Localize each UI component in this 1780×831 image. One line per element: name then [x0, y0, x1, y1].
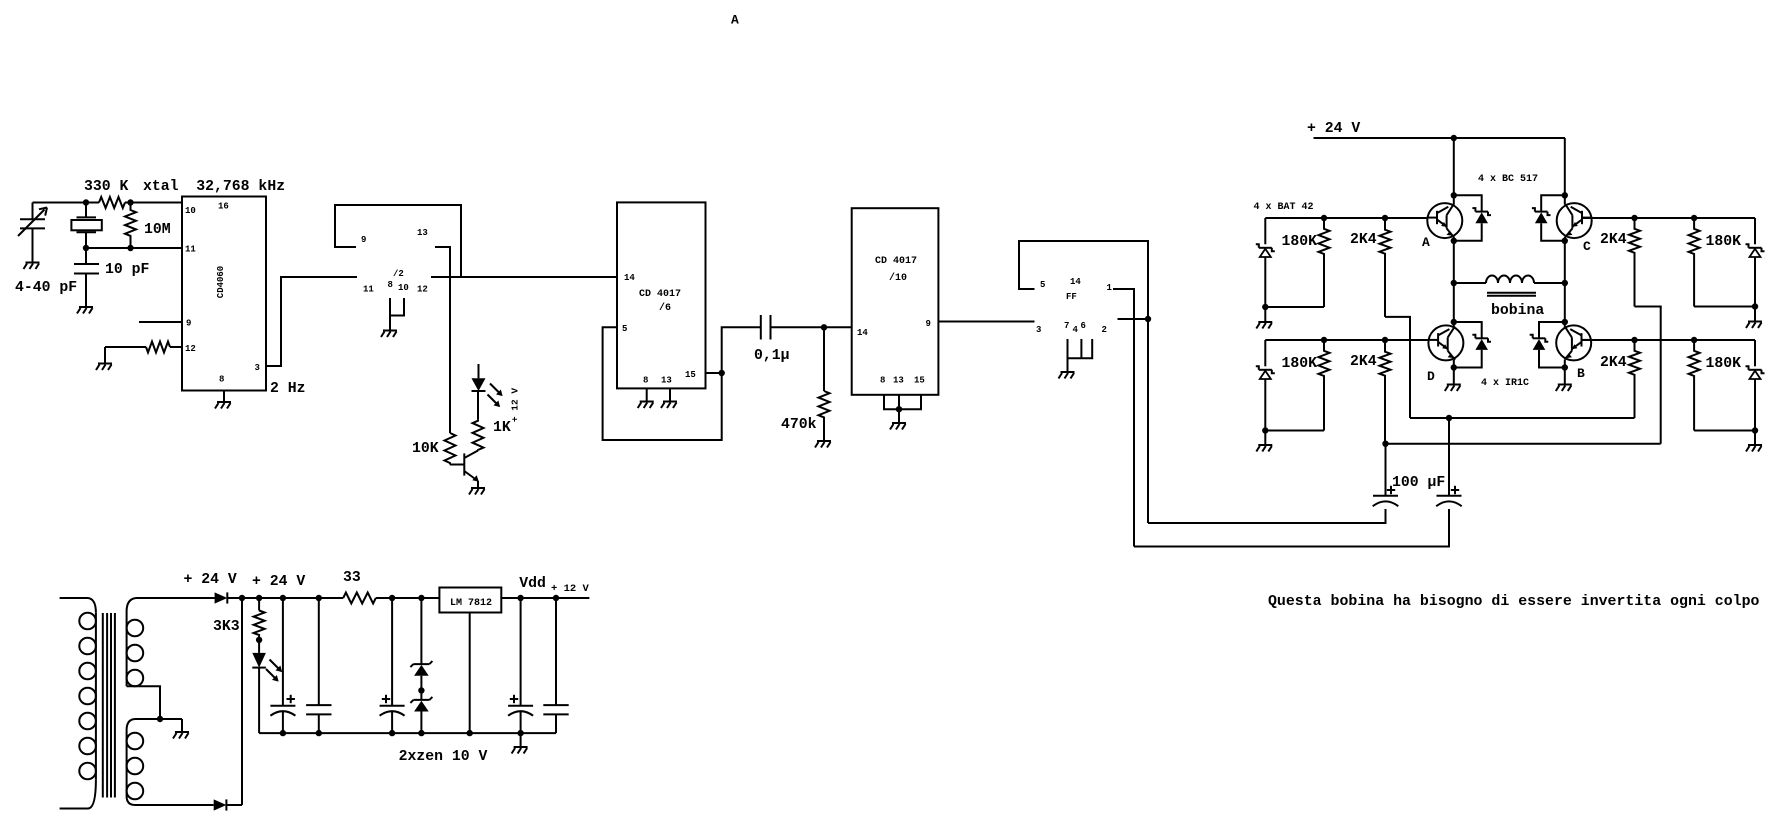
plus (C8)	[510, 695, 518, 703]
node 3K3 rail	[256, 595, 262, 601]
resistor 2K4 (D)	[1350, 340, 1391, 444]
LED D3 light arrows	[490, 384, 503, 397]
svg-text:470k: 470k	[781, 417, 817, 433]
svg-text:1: 1	[1107, 283, 1113, 293]
svg-text:180K: 180K	[1282, 234, 1318, 250]
wire FF pin2 stub	[1118, 318, 1149, 320]
svg-text:10K: 10K	[412, 441, 439, 457]
node gnd rail regulator	[467, 730, 473, 736]
node pin15 junction	[719, 370, 725, 376]
svg-text:+ 24 V: + 24 V	[252, 574, 305, 590]
wire D collector drop	[1453, 283, 1455, 327]
transistor D (darlington)	[1428, 325, 1463, 360]
svg-text:2xzen 10 V: 2xzen 10 V	[399, 749, 488, 765]
svg-text:33: 33	[343, 570, 361, 586]
svg-text:180K: 180K	[1282, 356, 1318, 372]
wire pin 3 to divider	[266, 277, 357, 366]
svg-text:10: 10	[185, 206, 196, 216]
capacitor 100uF C2	[1436, 418, 1462, 506]
node between zeners	[418, 687, 424, 693]
capacitor C6	[306, 598, 331, 733]
svg-text:14: 14	[1070, 277, 1081, 287]
ground (Q1 emitter)	[469, 488, 485, 495]
capacitor 10 pF	[74, 248, 149, 306]
node +24 rectifier junction	[239, 595, 245, 601]
op IC U1 CD4060	[182, 197, 266, 391]
plus (C2)	[1451, 486, 1459, 494]
diode BAT42 (A)	[1256, 218, 1275, 307]
node C2 top junction	[1446, 415, 1452, 421]
svg-text:A: A	[1422, 235, 1430, 250]
svg-text:2: 2	[1102, 325, 1107, 335]
wire pin 9 stub (CD4060)	[139, 321, 182, 323]
resistor 2K4 (A)	[1350, 218, 1391, 317]
wire +24V rail	[1314, 137, 1566, 139]
svg-text:11: 11	[363, 285, 374, 295]
wire to ground (B cell)	[1754, 431, 1756, 445]
svg-text:/10: /10	[889, 272, 907, 284]
svg-text:9: 9	[926, 319, 931, 329]
transformer T1	[60, 598, 214, 809]
svg-text:100 µF: 100 µF	[1392, 475, 1445, 491]
svg-text:180K: 180K	[1706, 356, 1742, 372]
wire C emitter to coil	[1564, 237, 1566, 283]
node crystal top	[83, 199, 89, 205]
resistor 180K (A)	[1265, 218, 1329, 307]
node D collector	[1451, 319, 1457, 325]
svg-text:2K4: 2K4	[1600, 232, 1627, 248]
diode rectifier D2	[214, 799, 242, 810]
svg-text:11: 11	[185, 245, 196, 255]
resistor 180K (B)	[1689, 340, 1755, 431]
ground (FF)	[1059, 372, 1075, 379]
ground (U2 pin8)	[638, 402, 654, 409]
svg-text:9: 9	[361, 235, 366, 245]
wire secondary top to diode	[136, 597, 215, 599]
wire regulator out rail	[501, 597, 589, 599]
node A base 2K4	[1382, 215, 1388, 221]
node gnd rail C8	[517, 730, 523, 736]
resistor 2K4 (B)	[1600, 340, 1640, 418]
plus (C7)	[382, 695, 390, 703]
svg-text:1K: 1K	[493, 420, 511, 436]
ground (470k)	[815, 441, 831, 448]
ground (A cell)	[1256, 322, 1272, 329]
node B emitter	[1562, 364, 1568, 370]
transistor B (darlington)	[1556, 325, 1591, 360]
svg-text:C: C	[1583, 239, 1591, 254]
svg-text:12: 12	[417, 285, 428, 295]
svg-text:bobina: bobina	[1491, 303, 1544, 319]
node C base 2K4	[1631, 215, 1637, 221]
svg-text:12: 12	[185, 344, 196, 354]
wire C-D drive rail	[1386, 443, 1661, 445]
diode flyback (C)	[1532, 195, 1565, 241]
svg-text:10M: 10M	[144, 222, 171, 238]
svg-text:3K3: 3K3	[213, 619, 240, 635]
node +24 rail / A collector	[1451, 135, 1457, 141]
capacitor C9	[543, 598, 568, 733]
wire A collector drop	[1453, 138, 1455, 205]
wire B emitter to ground	[1564, 360, 1566, 384]
svg-text:15: 15	[685, 370, 696, 380]
node cap/crystal junction	[83, 245, 89, 251]
wire U3 pins 8,13,15 to ground	[884, 395, 921, 423]
svg-text:3: 3	[255, 363, 260, 373]
wire pin 11 line	[86, 247, 182, 249]
node 3K3/LED	[256, 637, 262, 643]
zener Z1 10V	[410, 598, 432, 691]
svg-text:2K4: 2K4	[1600, 355, 1627, 371]
resistor 2K4 (C)	[1600, 218, 1640, 307]
LED D3	[472, 364, 486, 391]
wire /2 pin12 to CD4017 pin14	[431, 276, 617, 278]
resistor 180K (D)	[1265, 340, 1329, 431]
node U3 gnd junction	[896, 406, 902, 412]
svg-text:180K: 180K	[1706, 234, 1742, 250]
svg-text:/6: /6	[659, 302, 671, 314]
resistor 1K	[473, 420, 511, 451]
node B collector	[1562, 319, 1568, 325]
resistor 3K3	[254, 598, 265, 640]
svg-text:8: 8	[880, 376, 885, 386]
node FF pin2 junction	[1145, 316, 1151, 322]
node D emitter	[1451, 364, 1457, 370]
diode BAT42 (D)	[1256, 340, 1275, 431]
transistor Q1 (LED driver NPN)	[464, 451, 479, 488]
diode BAT42 (B)	[1746, 340, 1765, 431]
wire 10K to base	[450, 464, 464, 466]
node D base 2K4	[1382, 337, 1388, 343]
wire gnd stub	[520, 733, 522, 746]
wire 1K to LED	[477, 391, 479, 420]
svg-text:4 x IR1C: 4 x IR1C	[1481, 378, 1529, 389]
svg-text:5: 5	[622, 324, 627, 334]
wire cap to U3 pin14	[771, 326, 852, 328]
node B base 180K	[1691, 337, 1697, 343]
svg-text:16: 16	[218, 202, 229, 212]
svg-text:8: 8	[643, 376, 648, 386]
svg-text:3: 3	[1036, 325, 1041, 335]
svg-text:A: A	[731, 13, 739, 28]
capacitor 0,1u	[754, 315, 790, 364]
LED D4 light arrows	[270, 660, 283, 673]
node 470k top	[821, 324, 827, 330]
capacitor C5 electrolytic	[270, 598, 295, 733]
wire A-B drive rail	[1410, 417, 1635, 419]
svg-text:8: 8	[219, 375, 224, 385]
svg-text:+ 12 V: + 12 V	[510, 388, 521, 423]
svg-text:13: 13	[661, 376, 672, 386]
wire U2 pin8 stub	[646, 388, 648, 401]
plus (C1)	[1387, 486, 1395, 494]
node A collector	[1451, 192, 1457, 198]
svg-text:+ 24 V: + 24 V	[184, 572, 237, 588]
ground (pin 8)	[215, 402, 231, 409]
wire C drive jog down to D rail	[1635, 307, 1661, 444]
capacitor 100uF C1	[1373, 444, 1446, 507]
wire D emitter to ground	[1453, 360, 1455, 384]
svg-text:13: 13	[417, 228, 428, 238]
wire osc top rail	[33, 202, 100, 204]
svg-text:D: D	[1427, 369, 1435, 384]
wire FF pin5 top loop	[1019, 241, 1148, 523]
inductor bobina	[1454, 276, 1565, 320]
svg-text:330 K: 330 K	[84, 179, 129, 195]
wire pin15 up to coupling cap	[722, 327, 761, 373]
resistor 470k	[781, 327, 830, 440]
wire /2 pins 8,10 to ground	[390, 298, 404, 316]
svg-text:4: 4	[1073, 325, 1079, 335]
wire C collector drop	[1564, 138, 1566, 205]
ground (D emitter)	[1445, 385, 1461, 392]
ground (center tap)	[173, 732, 189, 739]
wire C base line	[1583, 217, 1756, 219]
svg-text:xtal 32,768 kHz: xtal 32,768 kHz	[143, 179, 285, 195]
ground (10 pF)	[77, 307, 93, 314]
IC U2 CD 4017 /6	[617, 202, 706, 388]
node 10M top	[127, 199, 133, 205]
wire A emitter to coil	[1453, 237, 1455, 283]
node rail zener	[418, 595, 424, 601]
node transformer center tap	[157, 716, 163, 722]
wire pin1 drop to cap2 bottom	[1134, 509, 1449, 547]
capacitor C7 electrolytic	[380, 598, 405, 733]
svg-text:FF: FF	[1066, 292, 1077, 302]
resistor 10M	[125, 203, 171, 249]
diode BAT42 (C)	[1746, 218, 1765, 307]
wire D base line	[1265, 339, 1428, 341]
wire /2 top loop pin9 to pin12	[335, 205, 461, 277]
wire U2 pin13 stub	[669, 388, 671, 401]
svg-text:10: 10	[398, 283, 409, 293]
ground (C cell)	[1746, 322, 1762, 329]
resistor 10K	[412, 433, 456, 465]
diode flyback (A)	[1454, 195, 1491, 241]
svg-text:4-40 pF: 4-40 pF	[15, 280, 77, 296]
svg-text:0,1µ: 0,1µ	[754, 348, 790, 364]
ground (D cell)	[1256, 445, 1272, 452]
ground (trimmer)	[24, 263, 40, 270]
node Vdd cap	[517, 595, 523, 601]
trimmer capacitor 4-40 pF	[15, 203, 77, 297]
svg-text:4 x BC 517: 4 x BC 517	[1478, 174, 1538, 185]
wire pin 8 to ground	[223, 391, 225, 402]
svg-text:6: 6	[1081, 321, 1086, 331]
node coil right	[1562, 280, 1568, 286]
svg-text:+ 12 V: + 12 V	[551, 583, 590, 595]
svg-text:Questa bobina ha bisogno di es: Questa bobina ha bisogno di essere inver…	[1268, 594, 1760, 610]
wire PSU ground rail	[259, 732, 556, 734]
node C emitter	[1562, 238, 1568, 244]
node C7 rail	[389, 595, 395, 601]
node gnd rail C5	[280, 730, 286, 736]
node gnd rail zener	[418, 730, 424, 736]
wire B base line	[1582, 339, 1755, 341]
crystal xtal 32,768 kHz	[71, 179, 285, 248]
svg-text:14: 14	[857, 328, 868, 338]
node C9 rail	[553, 595, 559, 601]
ground (/2 pins 8,10)	[381, 331, 397, 338]
svg-text:2K4: 2K4	[1350, 232, 1377, 248]
wire to ground (D cell)	[1264, 431, 1266, 445]
wire D2 up to +24 node	[241, 598, 243, 805]
node C6 rail	[316, 595, 322, 601]
wire A base line	[1265, 217, 1427, 219]
svg-text:13: 13	[893, 376, 904, 386]
flip-flop /2 (implied IC, wire stubs)	[361, 228, 428, 295]
node A base 180K	[1321, 215, 1327, 221]
capacitor C8 electrolytic	[508, 598, 533, 733]
resistor 33	[343, 570, 376, 604]
svg-text:14: 14	[624, 273, 635, 283]
wire /2 pin13 stub	[435, 247, 450, 433]
wire U3 pin9 to FF pin3	[938, 321, 1034, 323]
zener Z2 10V	[410, 691, 432, 734]
wire pin2 drop to cap1 bottom	[1148, 509, 1386, 523]
flip-flop FF (implied IC, wire stubs)	[1036, 277, 1113, 335]
node BAT42 A bottom	[1262, 304, 1268, 310]
svg-text:LM 7812: LM 7812	[450, 598, 492, 609]
node 10M bottom	[127, 245, 133, 251]
svg-text:7: 7	[1064, 321, 1069, 331]
node BAT42 B bottom	[1752, 427, 1758, 433]
resistor 330 K	[99, 197, 125, 208]
ground (pin 12)	[96, 364, 112, 371]
node D base 180K	[1321, 337, 1327, 343]
diode flyback (D)	[1454, 322, 1491, 368]
svg-text:4 x BAT 42: 4 x BAT 42	[1254, 202, 1314, 213]
svg-text:/2: /2	[393, 269, 404, 279]
transistor C (BC517 darlington)	[1557, 203, 1592, 238]
resistor 180K (C)	[1689, 218, 1755, 307]
wire B collector drop	[1564, 283, 1566, 327]
node BAT42 C bottom	[1752, 303, 1758, 309]
ground (B cell)	[1746, 445, 1762, 452]
ground (U2 pin13)	[661, 402, 677, 409]
svg-text:CD4060: CD4060	[216, 266, 226, 298]
regulator LM 7812	[439, 588, 501, 734]
plus (C5)	[287, 695, 295, 703]
transistor A (BC517 darlington)	[1427, 203, 1462, 238]
wire 33 to regulator	[376, 597, 440, 599]
wire A drive jog	[1385, 317, 1410, 418]
wire U2 pin15 out	[706, 372, 722, 374]
node C1 top junction	[1382, 441, 1388, 447]
node gnd rail C6	[316, 730, 322, 736]
wire FF pin1 stub and drop	[1113, 289, 1134, 547]
svg-text:5: 5	[1040, 280, 1045, 290]
wire FF pins 7,4,6 to ground	[1068, 339, 1093, 372]
svg-text:Vdd: Vdd	[519, 576, 546, 592]
svg-text:15: 15	[914, 376, 925, 386]
ground (U3)	[890, 423, 906, 430]
wire to pin10	[125, 202, 182, 204]
node A emitter	[1451, 238, 1457, 244]
node C base 180K	[1691, 215, 1697, 221]
diode flyback (B)	[1530, 322, 1565, 368]
svg-text:2K4: 2K4	[1350, 354, 1377, 370]
ground (PSU)	[512, 747, 528, 754]
node C collector	[1562, 192, 1568, 198]
wire to ground (A cell)	[1264, 307, 1266, 322]
wire center tap to ground	[181, 719, 183, 732]
node B base 2K4	[1631, 337, 1637, 343]
node coil left	[1451, 280, 1457, 286]
node BAT42 D bottom	[1262, 427, 1268, 433]
svg-text:+ 24 V: + 24 V	[1307, 121, 1360, 137]
svg-text:2 Hz: 2 Hz	[270, 381, 306, 397]
wire +24 rail to regulator	[242, 597, 343, 599]
node gnd rail C7	[389, 730, 395, 736]
svg-text:CD 4017: CD 4017	[875, 256, 917, 267]
svg-text:CD 4017: CD 4017	[639, 289, 681, 300]
resistor on pin 12	[105, 342, 182, 364]
wire U2 pin5 feedback loop	[603, 327, 722, 440]
node C5 rail	[280, 595, 286, 601]
diode rectifier D1	[215, 592, 242, 603]
LED D4 (power indicator)	[252, 640, 266, 733]
svg-text:8: 8	[388, 280, 393, 290]
IC U3 CD 4017 /10	[852, 208, 939, 395]
ground (B emitter)	[1556, 385, 1572, 392]
wire to ground (C cell)	[1754, 307, 1756, 322]
svg-text:9: 9	[186, 319, 191, 329]
svg-text:B: B	[1577, 366, 1585, 381]
svg-text:10 pF: 10 pF	[105, 262, 149, 278]
